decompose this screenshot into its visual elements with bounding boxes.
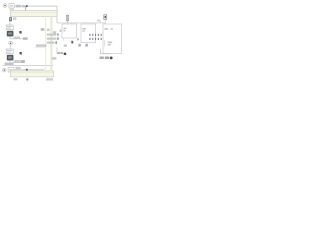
- cable label (right of W11): [53, 31, 56, 34]
- wire Q1 to F2: [9, 21, 11, 25]
- cable label (left of W10): [41, 28, 45, 31]
- fuse box F1 (top-left): [9, 4, 14, 8]
- device box C (tall module): [103, 24, 122, 54]
- PE wire (long, y=65.6): [3, 65, 54, 67]
- interruption arrow A2: [20, 52, 22, 55]
- pin label (dark) under box A: [71, 41, 73, 44]
- label near wire jog: [97, 20, 100, 22]
- contact cross-reference table row 1: [89, 34, 101, 36]
- small label below: [52, 57, 56, 59]
- pin label below gap: [78, 44, 80, 47]
- cable W10 (pale vertical): [45, 17, 47, 71]
- wire P2 to F3: [10, 45, 12, 49]
- contact cross-reference table row 2: [89, 38, 101, 40]
- cable W11 (pale vertical, wider): [50, 17, 52, 71]
- label below duct D2 left: [14, 78, 18, 80]
- conductor list row 2: [47, 37, 59, 39]
- wire L1 feeder (horizontal, y=6): [14, 5, 57, 7]
- label T1b: [22, 5, 25, 7]
- conductor list row 3: [47, 41, 57, 43]
- junction node (x=27,y=6): [26, 5, 28, 7]
- wire F6 down to box C: [104, 19, 106, 24]
- fuse F6 (above box C): [104, 15, 107, 20]
- label -W2: [14, 60, 20, 62]
- wire bottom feeder: [14, 69, 45, 71]
- instrument P2 (circled meter, group 2): [9, 41, 13, 45]
- label below duct D2: [46, 78, 53, 80]
- wire corner down at x=57: [56, 6, 58, 23]
- cable duct D2 (bottom busbar trunking): [10, 71, 53, 77]
- net label above PE line: [5, 63, 14, 65]
- PE dot below duct D2: [26, 78, 28, 80]
- pin label under box A (light): [64, 44, 67, 46]
- label above bottom wire: [16, 67, 21, 69]
- fuse F5 (above box A): [66, 15, 68, 23]
- fuse box F4 (bottom-left): [8, 68, 14, 72]
- PE terminal dot (mid): [64, 53, 67, 56]
- wire K2 down to motor line 2: [10, 60, 24, 63]
- cable label W12: [36, 44, 47, 46]
- label under fuse box F1: [9, 9, 14, 11]
- breaker Q1: [9, 17, 12, 21]
- cable tag (right of W10 top): [47, 29, 50, 31]
- device box B (PLC module): [81, 24, 96, 43]
- interruption arrow A1: [19, 31, 21, 34]
- conductor list row 1: [47, 33, 59, 35]
- label -Q1: [13, 17, 16, 20]
- pin label left of box A: [60, 29, 62, 32]
- instrument P1 (circled meter, top-left): [3, 4, 7, 8]
- control wire (y=22.8): [57, 22, 105, 24]
- net label below box C: [100, 57, 104, 60]
- contactor K2 (dark block): [7, 55, 13, 60]
- overload box F2: [6, 25, 13, 30]
- net label L2.1: [21, 60, 25, 62]
- label -T1 (right of fuse box): [16, 5, 21, 8]
- label -W1 (above motor line): [14, 36, 20, 38]
- contactor K1 (dark block): [7, 31, 13, 36]
- wire below box C: [100, 49, 111, 54]
- pin stub box A left: [63, 38, 65, 40]
- net label (mid): [58, 52, 60, 54]
- wire drop from junction to duct: [25, 6, 27, 11]
- device box A (PLC module): [62, 24, 77, 38]
- junction mark between boxes: [77, 38, 79, 40]
- PE terminal dot (right): [110, 57, 113, 60]
- overload box F3: [6, 49, 13, 54]
- junction node bottom (x=27): [26, 69, 28, 71]
- instrument P3 (circled, bottom-left): [3, 68, 7, 72]
- wire jog into box C: [100, 20, 102, 23]
- wire stub (y=47.8): [35, 47, 46, 49]
- pin label below box B: [85, 44, 87, 47]
- wire K1 down to motor line: [10, 36, 24, 39]
- wire to PE terminal (mid): [57, 47, 64, 53]
- net label L1.1: [23, 37, 28, 39]
- cable duct D1 (top busbar trunking): [10, 11, 57, 17]
